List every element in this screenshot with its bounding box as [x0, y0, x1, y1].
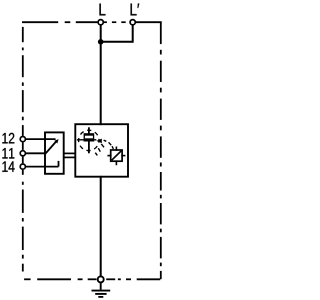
- contact 14 riser: [58, 161, 60, 167]
- main SPD box: [75, 124, 128, 177]
- signalling contact box: [45, 132, 64, 173]
- disconnector tick right: [121, 155, 125, 157]
- spark gap electrode slot: [85, 136, 93, 139]
- wire 14 to contact box: [26, 166, 59, 168]
- enclosure top border (dash-dot): [22, 21, 97, 23]
- disconnector diagonal: [112, 151, 121, 160]
- mechanical linkage (double line): [64, 152, 76, 154]
- wire L' to right border corner: [135, 21, 161, 23]
- disconnector tick bottom: [115, 160, 117, 165]
- wire main box down to earth terminal: [100, 176, 102, 277]
- enclosure left border (dash-dot): [22, 27, 24, 272]
- wire link L-L' (dashed): [104, 21, 126, 23]
- disconnector tick left: [107, 155, 111, 157]
- label 12: [2, 133, 14, 144]
- wire L' drop: [132, 25, 134, 43]
- ground stub: [100, 283, 102, 290]
- dashed actuating line to contact: [95, 144, 104, 156]
- wire 11 to contact box: [26, 152, 46, 154]
- spark gap horizontal thin line: [77, 139, 96, 141]
- wire L down to main box: [100, 25, 102, 125]
- enclosure right border (dash-dot): [160, 22, 162, 279]
- spark gap bottom lead: [88, 142, 90, 154]
- ground bar 1: [92, 290, 111, 292]
- switch arm (changeover contact): [46, 142, 56, 153]
- label L: [100, 4, 106, 16]
- enclosure bottom border (dash-dot): [24, 278, 160, 280]
- label 11: [2, 148, 14, 158]
- spark gap electrode body: [84, 133, 95, 141]
- spark gap F1: dashed circle: [79, 130, 99, 150]
- terminal 14: [20, 164, 25, 169]
- spark gap top lead: [88, 127, 90, 133]
- terminal 12: [20, 137, 25, 142]
- wire horizontal junction to L' branch: [100, 41, 133, 43]
- dashed monitoring line to disconnector: [104, 140, 114, 149]
- disconnector square: [111, 150, 122, 161]
- switch arm arrowhead: [54, 139, 58, 143]
- ground bar 2: [95, 293, 106, 295]
- disconnector tick top: [115, 147, 117, 151]
- terminal 11: [20, 151, 25, 156]
- label 14: [2, 161, 14, 171]
- terminal L': [130, 20, 135, 25]
- wire 12 to contact box: [26, 138, 56, 140]
- terminal L: [98, 20, 103, 25]
- terminal earth: [98, 276, 104, 282]
- label L': [131, 4, 140, 16]
- dashed monitoring arrowhead: [96, 139, 102, 144]
- node junction dot: [98, 39, 104, 45]
- ground bar 3: [98, 296, 103, 298]
